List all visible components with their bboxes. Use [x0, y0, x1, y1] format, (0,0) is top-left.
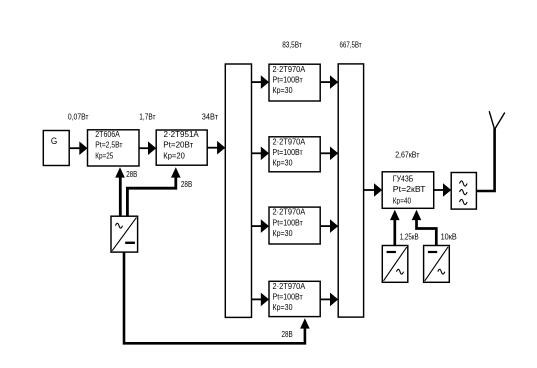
svg-text:28В: 28В [181, 179, 193, 189]
svg-text:2Т606А: 2Т606А [95, 129, 120, 139]
wire PS2 to tube amp [417, 220, 437, 246]
arrow into splitter [217, 141, 225, 155]
wire PS3 to amp module 4 [124, 252, 305, 343]
svg-text:2·2Т970А: 2·2Т970А [273, 207, 306, 217]
arrow into amp module 2 [261, 147, 269, 161]
wire amp module 1 to combiner [320, 81, 331, 83]
arrow PS2 into tube amp [412, 210, 422, 220]
svg-text:0,07Вт: 0,07Вт [68, 111, 89, 121]
wire combiner to tube amp [364, 189, 375, 191]
wire amp module 4 to combiner [320, 298, 331, 300]
arrow PS3 into VT2 [171, 167, 181, 177]
wire G to VT1 [69, 147, 80, 149]
wire VT2 to splitter [207, 147, 218, 149]
wire amp module 3 to combiner [320, 225, 331, 227]
wire tube amp to filter [434, 189, 444, 191]
amplifier stage VT2 2·2Т951А [156, 130, 207, 165]
wire VT1 to VT2 [139, 147, 149, 149]
svg-text:83,5Вт: 83,5Вт [282, 39, 302, 49]
svg-text:Pt=100Вт: Pt=100Вт [273, 147, 303, 157]
arrow PS3 into amp module 4 [300, 318, 310, 328]
amp module 4 2·2Т970А [269, 281, 320, 316]
wire splitter to amp module 2 [252, 152, 263, 154]
svg-text:Pt=20Вт: Pt=20Вт [163, 140, 193, 150]
arrow PS1 into tube amp [390, 210, 400, 220]
svg-text:1,25кВ: 1,25кВ [400, 232, 419, 242]
wire PS3 to VT2 [127, 178, 175, 217]
wire PS3 to VT1 [119, 178, 122, 217]
svg-text:28В: 28В [126, 169, 137, 179]
svg-text:2·2Т970А: 2·2Т970А [273, 136, 306, 146]
arrow into amp module 1 [261, 75, 269, 89]
svg-text:Pt=2,5Вт: Pt=2,5Вт [95, 140, 122, 150]
power splitter [225, 64, 251, 317]
arrow into tube amp [374, 183, 382, 197]
amp module 3 2·2Т970А [269, 207, 320, 244]
svg-text:Кр=40: Кр=40 [393, 196, 411, 206]
power combiner [338, 64, 363, 317]
wire splitter to amp module 3 [252, 225, 263, 227]
svg-text:1,7Вт: 1,7Вт [139, 111, 155, 121]
arrow into amp module 4 [261, 293, 269, 307]
svg-text:Кр=25: Кр=25 [95, 150, 113, 160]
arrow into combiner 4 [330, 293, 338, 307]
svg-text:2·2Т951А: 2·2Т951А [164, 129, 200, 139]
svg-text:34Вт: 34Вт [202, 111, 218, 121]
arrow into filter [443, 183, 451, 197]
wire filter to antenna [476, 128, 494, 191]
svg-text:Pt=100Вт: Pt=100Вт [273, 74, 303, 84]
amplifier stage VT1 2Т606А [88, 130, 140, 166]
arrow into amp module 3 [261, 219, 269, 233]
svg-text:G: G [51, 136, 57, 147]
amp module 2 2·2Т970А [269, 137, 320, 172]
svg-text:10кВ: 10кВ [441, 232, 457, 242]
svg-text:2·2Т970А: 2·2Т970А [273, 281, 306, 291]
svg-text:Кр=20: Кр=20 [163, 150, 185, 160]
svg-text:Кр=30: Кр=30 [273, 228, 293, 238]
svg-text:Кр=30: Кр=30 [273, 158, 293, 168]
arrow into VT1 [79, 141, 87, 155]
power supply PS3 (28V) [111, 216, 138, 252]
power supply PS2 (anode 10kV) [424, 246, 450, 283]
svg-text:Pt=100Вт: Pt=100Вт [273, 217, 303, 227]
svg-text:28В: 28В [282, 329, 293, 339]
arrow PS3 into VT1 [115, 167, 125, 177]
arrow into combiner 3 [330, 219, 338, 233]
tube amplifier ГУ43Б [382, 172, 434, 209]
wire splitter to amp module 4 [252, 298, 263, 300]
svg-text:Кр=30: Кр=30 [273, 85, 293, 95]
wire splitter to amp module 1 [252, 81, 263, 83]
arrow into combiner 2 [330, 147, 338, 161]
svg-text:Pt=2кВТ: Pt=2кВТ [393, 184, 426, 194]
wire PS1 to tube amp [393, 220, 396, 246]
svg-text:ГУ43Б: ГУ43Б [393, 173, 414, 183]
svg-text:2,67кВт: 2,67кВт [395, 150, 419, 160]
arrow into combiner 1 [330, 75, 338, 89]
arrow into VT2 [148, 141, 156, 155]
svg-text:Pt=100Вт: Pt=100Вт [273, 292, 303, 302]
output filter [451, 173, 476, 210]
svg-text:667,5Вт: 667,5Вт [340, 39, 362, 49]
generator G [43, 131, 69, 166]
wire amp module 2 to combiner [320, 152, 331, 154]
amp module 1 2·2Т970А [269, 64, 320, 101]
svg-text:Кр=30: Кр=30 [273, 302, 293, 312]
power supply PS1 (anode 1,25kV) [382, 246, 408, 283]
antenna [489, 111, 494, 129]
svg-text:2·2Т970А: 2·2Т970А [273, 64, 306, 74]
